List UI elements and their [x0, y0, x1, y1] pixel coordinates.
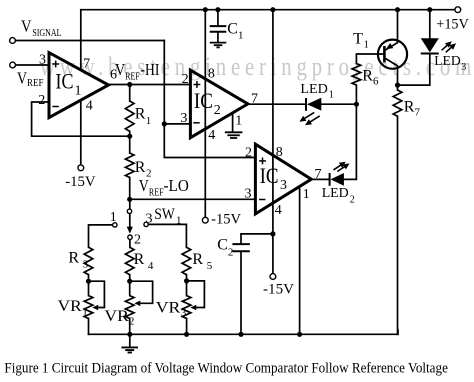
transistor T1 circle — [378, 40, 407, 69]
potentiometer VR3 wiper arrowhead — [190, 305, 196, 311]
wire LED3 branch from rail — [429, 10, 431, 39]
ground main at bottom rail — [121, 347, 138, 352]
wire VR1 to rail — [88, 319, 90, 335]
svg-text:2: 2 — [245, 146, 252, 161]
node V_REF-LO junction — [127, 197, 132, 202]
node VR3 top junction — [184, 278, 189, 283]
svg-text:3: 3 — [181, 307, 187, 319]
wire C1 from rail — [217, 10, 219, 26]
svg-text:LED: LED — [434, 54, 461, 69]
resistor R3 — [84, 247, 93, 274]
svg-text:7: 7 — [251, 92, 258, 107]
node IC3 pin4 C2 junction — [270, 231, 275, 236]
wire LED3 cathode to collector node — [398, 55, 430, 86]
node R1-R2 feedback junction — [127, 134, 132, 139]
svg-text:6: 6 — [110, 67, 117, 82]
svg-text:1: 1 — [303, 187, 310, 202]
wire IC2 output to LED1 cathode — [248, 103, 306, 105]
wire V_REF-HI node down to R1 — [129, 85, 131, 102]
node rail IC2 pin8 — [203, 7, 208, 12]
svg-text:1: 1 — [329, 89, 334, 100]
svg-text:V: V — [21, 16, 32, 35]
wire LED2 anode up to R6 node — [344, 104, 357, 179]
resistor R1 — [125, 101, 134, 131]
ground IC2 pin1 — [225, 132, 243, 138]
svg-text:8: 8 — [276, 145, 283, 160]
svg-text:2: 2 — [228, 246, 234, 258]
wire R5 to VR3 — [186, 275, 188, 296]
node ground rail VR3 — [184, 332, 189, 337]
svg-text:C: C — [227, 21, 238, 38]
svg-text:-15V: -15V — [263, 282, 294, 298]
wire R3 to VR1 — [88, 275, 90, 296]
svg-text:3: 3 — [245, 187, 252, 202]
wire V_SIGNAL down and to IC3 pin2 — [164, 41, 255, 158]
node VR2 top junction — [127, 279, 132, 284]
terminal V_REF — [10, 62, 16, 68]
wire V_REF terminal to IC1 pin3 — [16, 64, 49, 66]
svg-text:R: R — [192, 251, 203, 268]
wire ground rail bottom — [89, 330, 399, 334]
svg-text:SIGNAL: SIGNAL — [32, 27, 61, 39]
svg-text:R: R — [68, 250, 79, 267]
svg-text:R: R — [404, 99, 415, 116]
svg-text:2: 2 — [134, 232, 141, 247]
node ground rail C2 — [238, 332, 243, 337]
svg-text:7: 7 — [315, 167, 322, 182]
wire T1 base to R6 top — [356, 54, 383, 64]
potentiometer VR2 body — [125, 296, 134, 319]
plus sign IC3 — [259, 160, 266, 162]
wire C2 bottom to ground rail — [240, 252, 242, 334]
svg-text:V: V — [17, 69, 28, 88]
svg-text:R: R — [362, 67, 373, 84]
node V_SIGNAL IC2 pin3 junction — [162, 121, 167, 126]
wire V_REF-LO node to SW1 pole — [129, 199, 131, 209]
svg-text:4: 4 — [86, 99, 93, 114]
svg-text:1: 1 — [235, 114, 242, 129]
wire IC3 pin4 node to C2 — [241, 234, 273, 243]
svg-text:-LO: -LO — [164, 176, 189, 195]
potentiometer VR1 body — [84, 296, 93, 319]
wire VR2 wiper loop — [130, 281, 153, 303]
terminal -15V IC1 — [78, 165, 84, 171]
svg-text:3: 3 — [280, 178, 287, 193]
node rail IC3 pin8 — [270, 7, 275, 12]
svg-text:REF: REF — [149, 187, 164, 198]
transistor T1 base bar — [383, 46, 386, 63]
wire T1 collector down to R7 — [385, 58, 397, 90]
svg-text:3: 3 — [146, 212, 153, 227]
svg-text:IC: IC — [56, 69, 74, 94]
wire VR3 to rail — [186, 319, 188, 335]
wire V_SIGNAL horizontal — [16, 40, 165, 42]
wire R7 bottom to ground rail — [397, 116, 399, 334]
svg-text:7: 7 — [83, 57, 90, 72]
node T1 collector LED3 junction — [395, 83, 400, 88]
svg-text:Figure 1 Circuit Diagram of Vo: Figure 1 Circuit Diagram of Voltage Wind… — [4, 360, 448, 376]
node ground rail main — [127, 332, 132, 337]
svg-text:IC: IC — [194, 88, 213, 113]
comparator IC2 triangle — [190, 70, 248, 138]
node V_REF-HI junction — [127, 82, 132, 87]
wire R6 bottom to node — [355, 85, 357, 104]
svg-text:7: 7 — [415, 106, 421, 118]
svg-text:2: 2 — [38, 93, 45, 108]
wire VR1 wiper loop — [89, 281, 105, 307]
wire C1 bottom to ground — [217, 33, 219, 43]
svg-text:4: 4 — [275, 203, 282, 218]
diode LED1 — [306, 98, 321, 111]
switch SW1 pole contact — [127, 209, 131, 213]
op-amp IC1 triangle — [49, 53, 109, 118]
wire IC2 pin8 pin4 vertical to -15V — [204, 10, 206, 218]
svg-text:4: 4 — [208, 128, 215, 143]
svg-text:1: 1 — [364, 38, 370, 50]
terminal -15V IC3 — [270, 274, 276, 280]
wire top +15V rail with IC1 pin7 riser — [81, 10, 458, 70]
minus sign IC3 — [259, 199, 265, 201]
transistor T1 emitter arrow PNP — [386, 43, 394, 49]
node VR1 top junction — [86, 279, 91, 284]
svg-text:+15V: +15V — [436, 17, 469, 33]
wire IC1 output V_REF-HI to IC2 pin2 — [109, 84, 191, 86]
svg-text:3: 3 — [461, 62, 466, 73]
LED2 emission arrows — [334, 164, 347, 171]
switch SW1 contact 3 — [144, 222, 148, 226]
svg-text:6: 6 — [373, 75, 379, 87]
wire SW1 contact2 to R4 — [129, 239, 131, 247]
svg-text:2: 2 — [182, 72, 189, 87]
svg-text:LED: LED — [322, 186, 349, 201]
svg-text:1: 1 — [238, 29, 244, 41]
svg-text:REF: REF — [27, 78, 44, 89]
wire VR3 wiper loop — [187, 281, 205, 308]
svg-text:1: 1 — [82, 307, 88, 319]
resistor R2 — [125, 153, 134, 178]
potentiometer VR3 body — [182, 296, 191, 319]
terminal +15V — [455, 7, 461, 13]
node rail LED3 — [427, 7, 432, 12]
svg-text:VR: VR — [58, 298, 82, 315]
svg-text:-15V: -15V — [211, 212, 241, 228]
capacitor C1 — [210, 26, 227, 32]
switch SW1 contact 2 — [128, 235, 132, 239]
svg-text:1: 1 — [176, 215, 182, 227]
wire T1 emitter to rail — [385, 10, 397, 50]
resistor R4 — [125, 247, 134, 274]
wire LED1 anode to R6 node — [321, 103, 356, 105]
svg-text:3: 3 — [39, 52, 46, 67]
svg-text:R: R — [135, 159, 146, 176]
node ground rail IC3 pin1 — [297, 332, 302, 337]
svg-text:REF: REF — [125, 72, 140, 83]
LED3 emission arrows — [442, 44, 453, 52]
wire ground symbol stub — [129, 334, 131, 347]
svg-text:-HI: -HI — [140, 60, 159, 79]
diode LED2 — [330, 173, 344, 186]
ground below C1 — [210, 43, 227, 48]
switch SW1 contact 1 — [113, 223, 117, 227]
node LED anodes R6 junction — [354, 102, 359, 107]
svg-text:2: 2 — [129, 316, 135, 328]
switch SW1 selector arrow — [127, 214, 133, 234]
resistor R7 — [393, 90, 402, 116]
svg-text:IC: IC — [260, 163, 279, 188]
resistor R5 — [182, 247, 191, 274]
svg-text:4: 4 — [148, 260, 154, 272]
svg-text:LED: LED — [300, 82, 328, 97]
svg-text:2: 2 — [214, 103, 221, 118]
wire R4 to VR2 — [129, 275, 131, 296]
svg-text:SW: SW — [154, 206, 175, 223]
svg-text:VR: VR — [104, 308, 129, 325]
svg-text:-15V: -15V — [65, 174, 96, 190]
wire IC1 pin4 down to -15V terminal — [80, 100, 82, 165]
svg-text:C: C — [217, 236, 228, 253]
wire SW1 contact3 to R5 — [148, 224, 186, 247]
svg-text:2: 2 — [350, 194, 355, 205]
terminal V_SIGNAL — [10, 38, 16, 44]
svg-text:2: 2 — [146, 167, 152, 179]
resistor R6 — [352, 64, 361, 86]
wire R1 to R2 — [129, 131, 131, 153]
svg-text:R: R — [135, 106, 146, 123]
capacitor C2 — [232, 244, 249, 251]
svg-text:5: 5 — [207, 260, 213, 272]
minus sign IC2 — [193, 122, 199, 124]
plus sign IC1 — [52, 63, 59, 65]
wire IC3 pin8 pin4 vertical to -15V — [272, 10, 274, 274]
svg-text:1: 1 — [146, 115, 152, 127]
wire SW1 contact1 to R3 — [89, 225, 113, 247]
svg-text:1: 1 — [75, 84, 82, 99]
wire VR2 to rail — [129, 319, 131, 335]
wire node to IC2 pin3 — [164, 123, 190, 125]
svg-text:VR: VR — [156, 300, 181, 317]
terminal -15V IC2 — [202, 217, 208, 223]
svg-text:8: 8 — [208, 66, 215, 81]
minus sign IC1 — [52, 106, 58, 108]
wire IC3 pin1 down to ground rail — [299, 187, 301, 335]
node rail C1 — [215, 7, 220, 12]
wire V_REF-LO to IC3 pin3 — [130, 198, 256, 200]
wire IC2 pin1 ground stub — [232, 113, 234, 132]
svg-text:R: R — [134, 251, 145, 268]
wire IC3 output to LED2 cathode — [311, 178, 329, 180]
LED1 emission arrows — [304, 112, 320, 122]
potentiometer VR2 wiper arrowhead — [134, 301, 140, 307]
node rail T1 emitter — [395, 7, 400, 12]
svg-text:T: T — [353, 30, 363, 47]
svg-text:3: 3 — [83, 259, 89, 271]
plus sign IC2 — [194, 84, 201, 86]
wire R2 to V_REF-LO node — [129, 178, 131, 200]
diode LED3 — [421, 38, 439, 53]
svg-text:3: 3 — [180, 111, 187, 126]
comparator IC3 triangle — [255, 144, 311, 214]
potentiometer VR1 wiper arrowhead — [92, 305, 98, 311]
svg-text:1: 1 — [110, 210, 117, 225]
svg-text:www.bestengineeringprojects.co: www.bestengineeringprojects.com — [40, 53, 474, 82]
wire IC1 pin2 feedback to R1-R2 node — [32, 102, 130, 136]
